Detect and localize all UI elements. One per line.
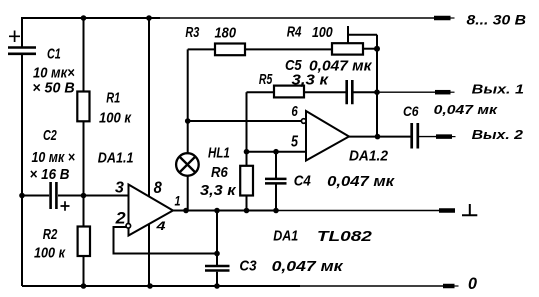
svg-text:6: 6	[291, 103, 298, 120]
svg-text:0,047 мк: 0,047 мк	[272, 258, 345, 275]
svg-text:0: 0	[468, 274, 478, 293]
svg-text:100 к: 100 к	[99, 109, 132, 126]
svg-text:R2: R2	[43, 226, 58, 243]
svg-text:R6: R6	[211, 164, 228, 181]
svg-text:Вых. 2: Вых. 2	[472, 128, 523, 142]
svg-text:Вых. 1: Вых. 1	[472, 83, 524, 97]
svg-text:2: 2	[115, 209, 127, 228]
svg-text:100 к: 100 к	[34, 245, 66, 262]
svg-text:10 мк ×: 10 мк ×	[32, 149, 76, 166]
svg-text:3: 3	[115, 180, 124, 197]
svg-text:100: 100	[312, 24, 333, 41]
svg-text:5: 5	[291, 134, 298, 151]
svg-text:R3: R3	[185, 24, 199, 41]
svg-text:0,047 мк: 0,047 мк	[327, 173, 396, 190]
svg-text:DA1: DA1	[273, 228, 298, 245]
svg-text:8... 30 В: 8... 30 В	[467, 11, 527, 27]
svg-text:3,3 к: 3,3 к	[200, 182, 237, 199]
svg-text:8: 8	[154, 178, 163, 197]
svg-text:3,3 к: 3,3 к	[292, 71, 330, 88]
svg-text:R1: R1	[106, 89, 120, 106]
svg-text:DA1.1: DA1.1	[98, 149, 134, 166]
svg-text:0,047 мк: 0,047 мк	[434, 102, 499, 117]
svg-text:DA1.2: DA1.2	[349, 148, 389, 165]
svg-text:TL082: TL082	[317, 228, 373, 245]
svg-text:С3: С3	[239, 258, 257, 275]
svg-text:R5: R5	[259, 71, 273, 88]
svg-text:1: 1	[175, 192, 181, 208]
svg-text:180: 180	[215, 25, 237, 42]
svg-text:С2: С2	[43, 127, 57, 144]
svg-text:× 16 В: × 16 В	[30, 166, 70, 183]
svg-text:С6: С6	[403, 104, 419, 119]
svg-text:С1: С1	[47, 46, 61, 63]
svg-text:4: 4	[155, 219, 166, 233]
svg-text:× 50 В: × 50 В	[32, 80, 75, 97]
svg-text:R4: R4	[287, 24, 302, 41]
svg-text:С4: С4	[294, 173, 312, 190]
svg-text:HL1: HL1	[208, 145, 230, 162]
